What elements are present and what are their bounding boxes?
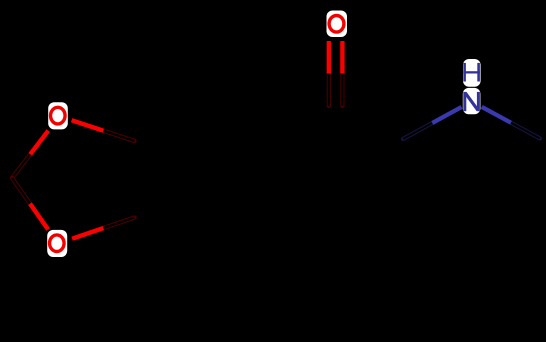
bond N to CH3 (blue half near N) <box>482 107 540 139</box>
atom label N (amine nitrogen) <box>463 92 480 111</box>
atom label O2 (dioxole bottom oxygen) <box>50 235 65 252</box>
label background O2 <box>47 230 67 257</box>
label background carbonyl O <box>327 11 348 38</box>
bond O2 to CH2 apex (red half near O2) <box>12 178 48 230</box>
wire C1-Car1 (carbonyl C to ring, black) <box>267 106 335 141</box>
bond N to alpha carbon (blue half near N) <box>403 107 462 139</box>
bond O1 to CH2 apex (red half near O1) <box>12 131 48 178</box>
atom label H (amine hydrogen) <box>463 63 480 82</box>
atom label O (carbonyl oxygen) <box>329 15 344 32</box>
bond O2 to ring carbon (red half near O2) <box>72 218 134 239</box>
bond C=O double bond (carbonyl), red half near O <box>329 41 343 106</box>
label background O1 <box>48 102 68 129</box>
benzene ring (black, invisible on black bg) <box>135 103 268 256</box>
wire Ca-CH3 (alpha methyl, black) <box>401 139 405 216</box>
label background N <box>463 88 481 114</box>
bond O1 to ring carbon (red half near O1) <box>72 120 135 141</box>
label background H <box>463 59 481 87</box>
atom label O1 (dioxole top oxygen) <box>51 107 66 124</box>
wire C1-Ca (carbonyl C to alpha C, black) <box>336 106 404 139</box>
